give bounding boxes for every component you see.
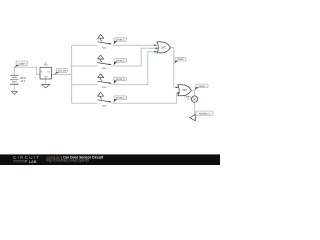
- node flag DOOR2: [114, 59, 127, 66]
- wire row1 SW1 to OR1 input A: [112, 44, 155, 46]
- pin arrow OR1 input A: [154, 44, 157, 46]
- wire row3 SW3 to OR1 input C: [112, 52, 155, 85]
- ground (regulator): [42, 84, 50, 88]
- svg-text:http://circuitlab.com/c/2yan95: http://circuitlab.com/c/2yan95: [46, 159, 89, 163]
- svg-text:OPEN: OPEN: [177, 59, 183, 61]
- wire row2 bus to SW2: [72, 65, 98, 67]
- node flag ANY_DOOR: [174, 57, 186, 63]
- node flag VCC: [54, 68, 67, 74]
- node flag DOME_LIGHT: [196, 111, 213, 115]
- wire row3 bus to SW3: [72, 84, 98, 86]
- wire row2 SW2 to OR1 input B: [112, 48, 156, 66]
- svg-text:DOOR_1: DOOR_1: [116, 40, 125, 42]
- U1 reference label: [44, 62, 48, 66]
- svg-text:LIGHT: LIGHT: [199, 86, 206, 88]
- ground (battery): [11, 91, 17, 94]
- footer watermark bar: [0, 154, 220, 165]
- wire OR2 output to lamp top: [191, 90, 194, 96]
- pin arrow OR2 input 2: [177, 92, 180, 94]
- lamp LAMP1: [191, 96, 197, 102]
- switch SW1: [97, 34, 112, 49]
- switch SW3: [97, 74, 112, 89]
- footer CircuitLab logo: [13, 155, 40, 164]
- wire regulator gnd pin to ground: [45, 79, 47, 84]
- node flag LIGHT: [195, 84, 208, 90]
- svg-text:DOOR_2: DOOR_2: [116, 60, 125, 62]
- LAMP1 value label: [185, 95, 192, 100]
- wire vertical distribution bus: [71, 45, 73, 103]
- wire battery top to regulator input: [14, 67, 40, 75]
- svg-text:12 V: 12 V: [20, 80, 25, 83]
- svg-text:NODE10 V: NODE10 V: [199, 113, 210, 115]
- svg-text:7805: 7805: [44, 65, 48, 67]
- junction bus regulator output: [71, 74, 73, 76]
- wire regulator output to bus: [51, 74, 71, 76]
- node flag BATT: [15, 61, 28, 67]
- wire battery bottom to ground: [13, 85, 15, 92]
- wire row1 bus to SW1: [72, 44, 98, 46]
- wire row4 bus to SW4: [72, 102, 98, 104]
- wire lamp bottom to output node: [194, 102, 196, 117]
- battery BAT1: [10, 76, 19, 85]
- switch SW2: [97, 55, 112, 70]
- svg-text:VCC_5V: VCC_5V: [58, 71, 67, 73]
- wire row4 SW4 to OR2 input 2: [112, 93, 178, 103]
- node flag DOOR4: [114, 96, 127, 103]
- pin arrow OR1 input B: [155, 47, 158, 49]
- svg-text:DOOR_3: DOOR_3: [116, 79, 125, 81]
- pin arrow OR2 input 1: [176, 87, 179, 89]
- voltage regulator U1 7805: [40, 67, 51, 79]
- battery BAT1 value label: [20, 77, 26, 83]
- svg-text:OR1: OR1: [161, 46, 167, 49]
- switch SW4: [97, 92, 112, 107]
- junction bus row3: [71, 84, 73, 86]
- pin arrow OR1 input C: [154, 51, 157, 53]
- node flag DOOR1: [114, 38, 127, 45]
- wire OR1 output down to OR2 input 1: [171, 47, 176, 87]
- output arrow flag pointer: [190, 115, 195, 121]
- svg-text:LAB: LAB: [29, 160, 37, 164]
- junction bus row2: [71, 65, 73, 67]
- svg-text:V_BATT: V_BATT: [18, 62, 26, 65]
- svg-text:DOOR_4: DOOR_4: [116, 98, 125, 100]
- svg-text:OR2: OR2: [182, 89, 188, 92]
- or-gate OR2: [178, 85, 192, 96]
- node flag DOOR3: [114, 77, 127, 84]
- svg-text:OUT: OUT: [47, 71, 51, 73]
- svg-text:12 V: 12 V: [187, 99, 192, 101]
- or-gate OR1: [157, 42, 171, 53]
